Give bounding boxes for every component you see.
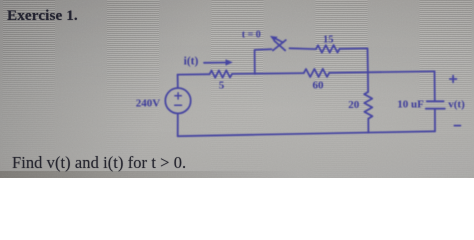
svg-text:20: 20 xyxy=(348,99,360,111)
voltage source plus sign xyxy=(175,93,181,99)
wire: capacitor to bottom-right corner xyxy=(434,110,436,132)
wire: switch to 15 ohm resistor xyxy=(290,47,317,50)
label minus of v(t) xyxy=(454,125,460,127)
voltage source VS 240V circle xyxy=(165,88,190,113)
label plus of v(t) xyxy=(450,76,457,83)
capacitor C1 bottom plate xyxy=(426,108,445,110)
svg-text:i(t): i(t) xyxy=(184,56,199,68)
wire: top-left corner to 5-ohm resistor xyxy=(178,73,210,75)
wire: riser from junction up to switch xyxy=(255,49,272,74)
svg-text:v(t): v(t) xyxy=(448,98,465,110)
wire: 15 ohm to right corner of switch branch, down to main wire xyxy=(340,48,368,72)
wire: source top lead xyxy=(177,75,179,88)
question text xyxy=(12,153,186,173)
wire: 20 ohm to bottom wire xyxy=(367,119,369,133)
resistor R1 5 ohm xyxy=(210,70,232,77)
switch SW1 (opens at t=0) blade xyxy=(273,40,286,50)
svg-text:240V: 240V xyxy=(136,97,161,109)
wire: 5 ohm to 60 ohm (through switch junction) xyxy=(232,72,304,75)
resistor R4 20 ohm (vertical) xyxy=(364,92,372,119)
current arrowhead xyxy=(226,59,233,65)
wire: junction down to 20 ohm resistor xyxy=(367,72,369,92)
title text xyxy=(7,7,78,25)
photographic grain overlay xyxy=(0,0,474,178)
svg-text:10 uF: 10 uF xyxy=(397,98,424,110)
switch SW1 opening arrow xyxy=(276,39,284,43)
wire: bottom return wire xyxy=(178,131,435,136)
wire: right branch down to capacitor xyxy=(434,71,436,100)
wire: source bottom lead xyxy=(177,113,179,136)
svg-text:15: 15 xyxy=(323,35,334,46)
switch SW1 cross stroke xyxy=(274,41,285,51)
current arrow i(t) xyxy=(204,62,228,64)
svg-text:5: 5 xyxy=(219,80,225,92)
switch SW1 arrowhead xyxy=(270,36,278,41)
capacitor C1 top plate xyxy=(427,100,444,102)
svg-text:t = 0: t = 0 xyxy=(242,30,261,41)
resistor R2 15 ohm xyxy=(316,45,340,53)
resistor R3 60 ohm xyxy=(304,69,330,77)
svg-text:60: 60 xyxy=(313,79,325,91)
wire: 60 ohm to top-right corner xyxy=(329,71,434,72)
voltage source minus sign xyxy=(175,104,182,106)
